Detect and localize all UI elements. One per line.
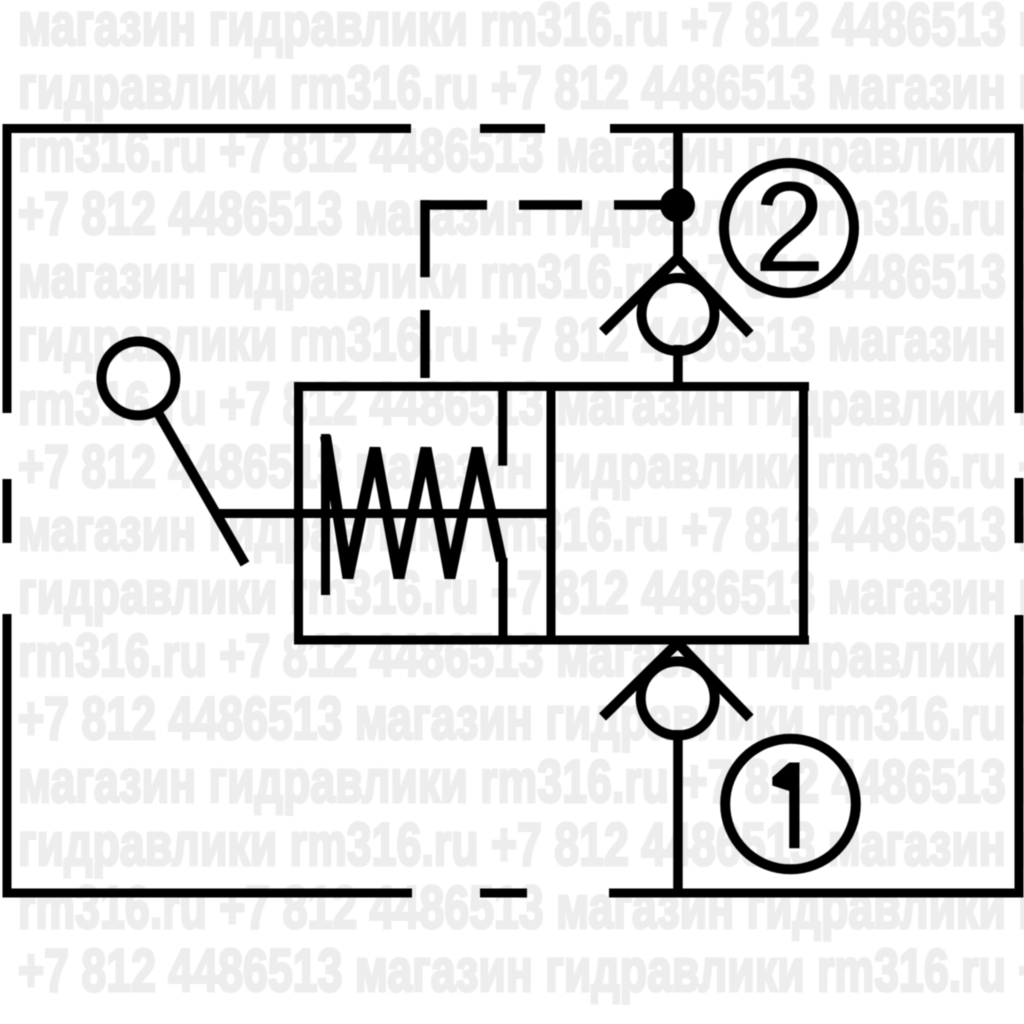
- svg-text:2: 2: [754, 156, 825, 299]
